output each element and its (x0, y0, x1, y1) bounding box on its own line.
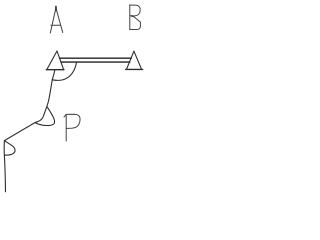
triangle station A (46, 51, 64, 70)
loop at node V3 (4, 141, 15, 156)
wire: drop from triangle A base to junction (52, 70, 54, 79)
baseline AB double line (top) (60, 57, 132, 59)
node A label (50, 6, 62, 33)
baseline AB double line (bottom) (61, 61, 130, 63)
wire: branch curve from junction up to baseline (52, 63, 76, 81)
triangle station B (126, 51, 143, 69)
loop at node V2 (35, 106, 55, 125)
wire: main wavy path junction to V2 to V3 to bottom (4, 80, 52, 192)
node P label (64, 114, 80, 141)
node B label (130, 5, 141, 30)
